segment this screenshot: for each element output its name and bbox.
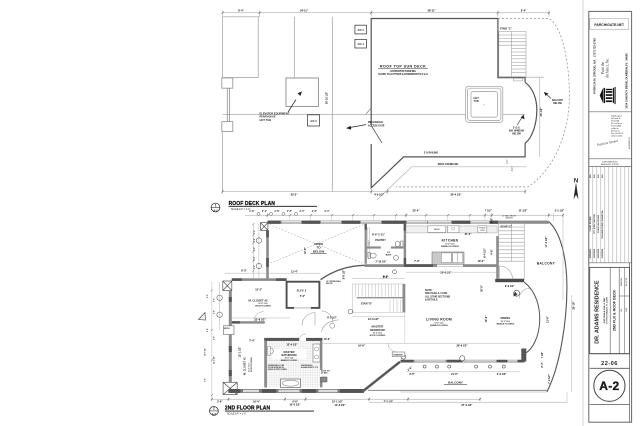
website box <box>590 19 629 30</box>
svg-text:A-2: A-2 <box>213 209 218 213</box>
ROOF DECK PLAN <box>211 9 578 212</box>
svg-text:5'-8 1/2": 5'-8 1/2" <box>343 269 346 279</box>
top dimension line <box>223 11 549 17</box>
svg-text:HYDROSTOP ROOFING: HYDROSTOP ROOFING <box>390 71 416 73</box>
svg-text:WOOD FLOORING: WOOD FLOORING <box>255 306 271 308</box>
sheet number circle <box>594 370 625 401</box>
bath stipple floor <box>267 341 320 387</box>
svg-text:MARBLE FLOORING: MARBLE FLOORING <box>281 359 298 362</box>
A/C 1 box <box>355 39 367 48</box>
svg-text:BELOW: BELOW <box>326 283 333 285</box>
living/dining south wall <box>401 360 525 363</box>
master bath west wall <box>264 341 267 388</box>
west X column <box>223 281 232 291</box>
svg-text:BATH: BATH <box>386 254 392 257</box>
svg-text:SCALE 1/4" = 1'-0": SCALE 1/4" = 1'-0" <box>231 208 251 211</box>
svg-text:3'-0": 3'-0" <box>214 298 216 302</box>
svg-text:CORPORATION NO.: CORPORATION NO. <box>602 161 618 164</box>
svg-text:WOOD FLOORING: WOOD FLOORING <box>251 357 253 372</box>
svg-text:4'-6 1/2": 4'-6 1/2" <box>374 193 384 196</box>
svg-text:8'-0" 1'-11": 8'-0" 1'-11" <box>372 233 386 236</box>
svg-text:4'-0": 4'-0" <box>213 336 216 340</box>
svg-text:3'-0": 3'-0" <box>409 373 415 376</box>
svg-text:LIVING ROOM: LIVING ROOM <box>426 317 452 321</box>
svg-text:2'-8": 2'-8" <box>214 310 216 314</box>
stair C floor plan <box>499 223 525 279</box>
svg-text:2'-8": 2'-8" <box>254 265 256 269</box>
svg-text:KITCHEN: KITCHEN <box>442 238 459 242</box>
svg-text:WOOD TOP: WOOD TOP <box>321 371 331 373</box>
svg-text:33'-3": 33'-3" <box>291 193 299 196</box>
svg-text:BATHROOM: BATHROOM <box>281 353 296 357</box>
svg-text:24'-11": 24'-11" <box>300 9 309 12</box>
master bath north wall <box>264 338 299 341</box>
master bathroom labels <box>272 349 306 359</box>
svg-text:PATRICIA M. STROUD, AIA (72: PATRICIA M. STROUD, AIA (727) 723-3769 <box>592 38 596 94</box>
svg-text:ADDENDUM #4: ADDENDUM #4 <box>628 137 631 149</box>
sheet divider line <box>582 0 584 426</box>
svg-text:MARBLE FLOORING: MARBLE FLOORING <box>430 324 448 327</box>
svg-text:36'-10 1/2": 36'-10 1/2" <box>326 91 329 104</box>
svg-text:3'-4": 3'-4" <box>206 328 209 332</box>
north-ish marker left <box>199 313 206 321</box>
svg-text:3'-0": 3'-0" <box>254 247 256 251</box>
divider <box>589 111 632 113</box>
svg-text:2'-0": 2'-0" <box>207 294 209 298</box>
svg-text:20'-1/2": 20'-1/2" <box>540 107 543 117</box>
svg-text:12'-6": 12'-6" <box>304 247 307 255</box>
svg-text:MECH: MECH <box>224 328 230 330</box>
kitchen counter <box>406 226 497 233</box>
svg-text:LANDING: LANDING <box>505 216 513 219</box>
svg-text:12'-1 1/2": 12'-1 1/2" <box>239 346 242 358</box>
svg-text:9'-3": 9'-3" <box>241 269 247 272</box>
small top dim string <box>249 210 329 213</box>
svg-text:KINSTON BLDG: KINSTON BLDG <box>301 365 313 367</box>
svg-text:1634 SAN ROY DRIVE, DUNEDIN, F: 1634 SAN ROY DRIVE, DUNEDIN, FL 34698 <box>625 53 629 109</box>
project box <box>590 267 630 353</box>
svg-text:AA26001895, STROUD: AA26001895, STROUD <box>601 163 620 166</box>
svg-text:1'-4": 1'-4" <box>253 230 256 234</box>
revision table columns <box>593 167 629 263</box>
svg-text:DR. ADAMS RESIDENCE: DR. ADAMS RESIDENCE <box>595 280 601 344</box>
svg-text:HOT TUB: HOT TUB <box>260 118 272 122</box>
svg-text:05/02/2024: 05/02/2024 <box>621 278 623 286</box>
svg-text:& DETAILS: & DETAILS <box>425 299 438 302</box>
balcony south rail <box>368 389 547 391</box>
svg-text:DINING: DINING <box>501 316 511 320</box>
svg-text:ROOF TOP SUN DECK: ROOF TOP SUN DECK <box>380 64 426 68</box>
TITLE BLOCK <box>583 0 632 426</box>
revision header <box>589 158 632 160</box>
svg-text:BUILDING PERMIT SUBMITTAL,: BUILDING PERMIT SUBMITTAL, <box>601 209 604 238</box>
svg-text:BEDROOM: BEDROOM <box>370 328 385 332</box>
svg-text:7'-4 1/2": 7'-4 1/2" <box>548 373 551 383</box>
svg-text:30'-4 1/2": 30'-4 1/2" <box>451 193 463 196</box>
svg-text:BALCONY: BALCONY <box>537 262 556 266</box>
svg-text:CLIENT DG REVIEW: CLIENT DG REVIEW <box>598 215 600 233</box>
svg-text:PANTRY: PANTRY <box>375 238 386 242</box>
svg-text:BALCONY: BALCONY <box>552 99 564 102</box>
stair C (roof) <box>499 32 544 81</box>
svg-text:26'-10": 26'-10" <box>572 301 575 310</box>
svg-text:2: 2 <box>213 407 215 411</box>
mech closet <box>224 326 235 335</box>
svg-text:STAIR "C": STAIR "C" <box>500 27 513 30</box>
svg-text:M.S.: M.S. <box>598 174 600 178</box>
svg-text:3' H RAILING: 3' H RAILING <box>424 152 438 155</box>
balcony posts <box>423 365 505 368</box>
svg-text:09/20/2022: 09/20/2022 <box>590 249 592 258</box>
revision entries (rotated) <box>590 174 604 259</box>
kitchen south wall <box>365 264 497 267</box>
balcony east curve <box>547 222 567 392</box>
svg-text:7'-6": 7'-6" <box>205 378 207 382</box>
svg-text:3'-4": 3'-4" <box>262 210 267 213</box>
svg-text:CLIENT REVIEW: CLIENT REVIEW <box>590 216 592 231</box>
svg-text:12'-6": 12'-6" <box>547 315 550 323</box>
A/C 2 box <box>355 25 367 34</box>
title block outer border <box>589 11 632 422</box>
svg-text:STAIR "B": STAIR "B" <box>361 302 372 305</box>
svg-text:M. CLOSET #1: M. CLOSET #1 <box>242 357 246 375</box>
svg-text:2'-8": 2'-8" <box>249 210 254 213</box>
svg-text:ROOF OVERHANG: ROOF OVERHANG <box>438 163 459 166</box>
svg-text:12'-9 1/2": 12'-9 1/2" <box>368 318 380 321</box>
svg-text:MARBLE FLOORING: MARBLE FLOORING <box>497 322 515 325</box>
bath east wall <box>320 341 322 370</box>
svg-text:8'-4": 8'-4" <box>238 9 244 12</box>
svg-text:SLOPE TO GUTTERS & DOWNSPOUTS: SLOPE TO GUTTERS & DOWNSPOUTS N & S <box>378 74 428 76</box>
svg-text:12'-6 1/2": 12'-6 1/2" <box>255 319 267 322</box>
bath toilet + vanity <box>269 348 273 354</box>
svg-text:M.S.: M.S. <box>594 174 596 178</box>
bay pier + curve <box>521 349 526 362</box>
svg-text:04/07/2023: 04/07/2023 <box>597 249 600 258</box>
svg-text:A/C 1: A/C 1 <box>358 43 365 46</box>
bay window below label <box>509 115 525 136</box>
svg-text:10/12/2022: 10/12/2022 <box>594 249 596 258</box>
svg-text:3'-0": 3'-0" <box>512 167 514 172</box>
top dims floor plan <box>245 213 563 218</box>
svg-text:2'-8": 2'-8" <box>274 210 279 213</box>
svg-text:3'-6": 3'-6" <box>491 217 494 223</box>
svg-text:TUB: TUB <box>474 100 479 103</box>
svg-text:ACCESS GATE: ACCESS GATE <box>368 124 385 127</box>
svg-text:7'-2 1/2": 7'-2 1/2" <box>384 400 394 403</box>
svg-text:21'-0": 21'-0" <box>451 373 459 376</box>
svg-text:6'-9 1/2": 6'-9 1/2" <box>505 285 515 288</box>
svg-text:16'-4": 16'-4" <box>253 400 261 403</box>
svg-text:ST PETE BEACH, FL 33706: ST PETE BEACH, FL 33706 <box>606 296 609 323</box>
svg-text:MARBLE FLOORING: MARBLE FLOORING <box>441 245 459 248</box>
A/C 3 box <box>308 115 320 126</box>
job number band <box>590 353 630 355</box>
svg-text:2ND FLR & ROOF DECK: 2ND FLR & ROOF DECK <box>612 289 616 331</box>
svg-text:2ND FLOOR PLAN: 2ND FLOOR PLAN <box>225 406 271 412</box>
svg-text:9'-0": 9'-0" <box>383 276 389 279</box>
svg-text:BELOW: BELOW <box>512 134 521 136</box>
svg-text:16'-6": 16'-6" <box>485 315 488 323</box>
svg-text:17'-4 1/2": 17'-4 1/2" <box>545 236 548 248</box>
svg-text:12'-5 1/2": 12'-5 1/2" <box>335 404 347 407</box>
svg-text:11'-1/2": 11'-1/2" <box>519 210 529 213</box>
svg-text:RANGE: RANGE <box>434 228 441 231</box>
svg-text:WOOD FLOORING: WOOD FLOORING <box>370 335 386 337</box>
NW X column <box>261 223 268 231</box>
svg-text:20'-6 1/2": 20'-6 1/2" <box>441 272 453 275</box>
svg-text:33'-4": 33'-4" <box>413 210 421 213</box>
svg-text:27'-3 1/2": 27'-3 1/2" <box>461 404 473 407</box>
svg-text:SHELF: SHELF <box>369 239 371 246</box>
bottom dims <box>212 398 480 400</box>
svg-text:1: 1 <box>215 203 217 207</box>
svg-text:7'-0": 7'-0" <box>300 295 306 298</box>
note block <box>425 289 451 302</box>
sun deck dark outline <box>371 19 537 188</box>
svg-text:BALCONY: BALCONY <box>448 380 463 384</box>
master bedroom door arcs <box>302 313 315 326</box>
svg-text:FRIDGE: FRIDGE <box>479 228 485 230</box>
stair B <box>352 284 404 312</box>
svg-text:2'-8": 2'-8" <box>287 210 292 213</box>
west wall <box>229 291 232 326</box>
svg-text:28'-11": 28'-11" <box>428 9 437 12</box>
svg-text:10'-1 1/2": 10'-1 1/2" <box>205 348 207 356</box>
elevator 2 <box>287 282 320 308</box>
west upper wall <box>266 230 269 279</box>
svg-text:SCALE 1/4" = 1'-0": SCALE 1/4" = 1'-0" <box>227 412 247 415</box>
svg-text:ELEV. 2: ELEV. 2 <box>297 289 307 293</box>
svg-text:16'-6": 16'-6" <box>358 345 366 348</box>
svg-text:A/C 2: A/C 2 <box>358 29 365 32</box>
open to below dashed X <box>270 225 364 264</box>
roof deck plan title <box>211 201 317 213</box>
pantry west wall + shelf <box>365 224 367 264</box>
svg-text:10'-0": 10'-0" <box>478 260 486 263</box>
svg-text:6'-3 1/2": 6'-3 1/2" <box>327 316 337 319</box>
signature block <box>611 115 623 138</box>
svg-text:7 1/2": 7 1/2" <box>541 351 544 359</box>
M closet 2 south wall <box>232 321 265 323</box>
svg-text:12'-1 1/2": 12'-1 1/2" <box>214 356 216 364</box>
svg-text:M.S.: M.S. <box>621 308 623 312</box>
svg-text:BELOW: BELOW <box>553 103 562 105</box>
svg-text:11'-4": 11'-4" <box>291 270 298 273</box>
svg-text:22-06: 22-06 <box>601 361 618 367</box>
svg-text:30'-6": 30'-6" <box>481 284 484 292</box>
hot tub <box>466 86 503 122</box>
svg-text:12'-2": 12'-2" <box>255 289 263 292</box>
roof overhang line <box>377 167 527 200</box>
svg-text:7'-4": 7'-4" <box>249 340 255 343</box>
curved landing arc <box>322 320 339 332</box>
svg-text:7 1/2": 7 1/2" <box>485 210 493 213</box>
stair C south hatched wall <box>495 279 524 282</box>
svg-text:MECHANICAL: MECHANICAL <box>368 121 384 124</box>
svg-text:FLOOR MOUNTED ON: FLOOR MOUNTED ON <box>268 367 284 369</box>
script firm name <box>601 58 610 79</box>
elevator equipment penthouse rect <box>286 78 318 106</box>
svg-text:A-2: A-2 <box>599 379 619 393</box>
penthouse roof light outline <box>223 17 525 192</box>
dashed balcony below outline <box>396 19 569 187</box>
svg-text:7'-3": 7'-3" <box>414 260 420 263</box>
svg-text:SHOWER ENCL TO BE: SHOWER ENCL TO BE <box>268 365 284 367</box>
elevator equipment label + arrow <box>260 91 303 121</box>
svg-text:2'-6": 2'-6" <box>217 400 223 403</box>
diagonal wall <box>363 362 400 392</box>
svg-text:3' O.H.: 3' O.H. <box>513 128 521 130</box>
svg-text:M.S.: M.S. <box>590 174 592 178</box>
svg-text:2'-4": 2'-4" <box>541 361 544 367</box>
svg-text:M.S.: M.S. <box>602 174 604 178</box>
exterior north wall <box>268 221 549 224</box>
svg-text:05/02/2024: 05/02/2024 <box>601 248 604 258</box>
svg-text:3'-4": 3'-4" <box>299 210 304 213</box>
svg-text:14'-6": 14'-6" <box>324 338 332 341</box>
svg-text:STAIR "C": STAIR "C" <box>501 226 513 229</box>
svg-text:4'-6": 4'-6" <box>491 248 494 254</box>
bottom dim line roof <box>223 189 525 194</box>
svg-text:10:42:20 -04'00': 10:42:20 -04'00' <box>611 136 623 138</box>
kitchen west wall <box>404 224 406 266</box>
open to below label <box>313 242 325 253</box>
curved wall below <box>321 265 365 279</box>
svg-text:PARCHIGATE.NET: PARCHIGATE.NET <box>594 23 625 27</box>
svg-text:A-2: A-2 <box>212 412 217 416</box>
svg-text:3'-4": 3'-4" <box>324 210 329 213</box>
svg-text:3'-4": 3'-4" <box>253 238 256 242</box>
svg-text:3'-1 1/2": 3'-1 1/2" <box>555 210 565 213</box>
svg-text:2'-3 1/2": 2'-3 1/2" <box>497 373 507 376</box>
svg-text:BAY WINDOW: BAY WINDOW <box>509 130 525 133</box>
right vertical dim 20'-1/2" <box>539 78 541 157</box>
svg-text:22-06: 22-06 <box>626 308 628 312</box>
svg-text:M. CLOSET #2: M. CLOSET #2 <box>249 299 269 303</box>
architect logo (temple) <box>600 87 616 104</box>
svg-text:12'-4 1/2": 12'-4 1/2" <box>287 344 299 347</box>
svg-text:CITY STAFF MEETING: CITY STAFF MEETING <box>593 214 596 234</box>
left dim lines <box>252 224 254 279</box>
svg-text:2'-8": 2'-8" <box>312 210 317 213</box>
grid bubbles <box>217 238 397 318</box>
SW X column <box>223 382 237 394</box>
svg-text:BELOW: BELOW <box>313 249 325 253</box>
svg-text:21'-0": 21'-0" <box>465 233 473 236</box>
2nd floor plan title <box>210 406 315 417</box>
svg-text:7'-10 1/2": 7'-10 1/2" <box>376 260 388 263</box>
balcony door + marker <box>519 288 530 298</box>
svg-text:26'-6 1/2": 26'-6 1/2" <box>457 345 469 348</box>
M closet 2 north wall <box>232 278 287 281</box>
svg-text:A/C 3: A/C 3 <box>310 120 317 123</box>
left access boxes <box>222 78 233 132</box>
svg-text:10'-6 1/2": 10'-6 1/2" <box>289 404 301 407</box>
2ND FLOOR PLAN <box>199 210 576 416</box>
svg-text:1'-0": 1'-0" <box>507 160 509 165</box>
svg-text:3500 PASA A GRILLE WAY: 3500 PASA A GRILLE WAY <box>603 297 606 324</box>
tub <box>281 379 301 388</box>
south wall master bath <box>228 389 363 393</box>
pantry/bath divider <box>367 246 381 248</box>
svg-text:6'-4 1/2": 6'-4 1/2" <box>483 247 486 257</box>
kitchen island <box>432 252 464 264</box>
svg-text:6'-4": 6'-4" <box>521 9 527 12</box>
mechanical access gate <box>346 108 385 130</box>
